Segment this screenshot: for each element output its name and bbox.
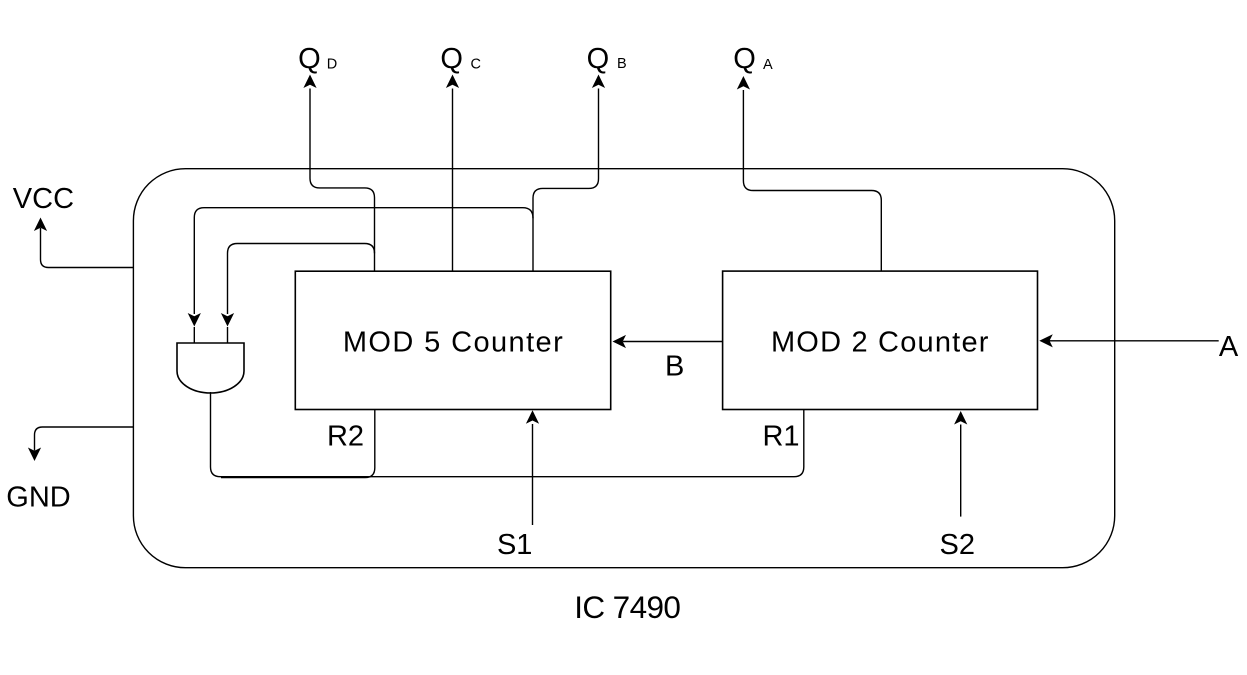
svg-text:MOD 5 Counter: MOD 5 Counter [343, 327, 564, 359]
IC 7490 body outline [133, 169, 1114, 568]
svg-text:S2: S2 [940, 529, 975, 561]
svg-text:R1: R1 [762, 421, 799, 453]
svg-text:D: D [327, 56, 337, 72]
svg-text:S1: S1 [497, 529, 532, 561]
wire GND to left edge [28, 427, 133, 461]
wire AND gate output to R1 [211, 392, 804, 477]
wire S1 input [526, 410, 539, 525]
svg-text:GND: GND [6, 482, 70, 514]
svg-text:Q: Q [733, 43, 756, 75]
Qc output label [440, 43, 481, 75]
svg-text:B: B [617, 56, 627, 72]
wire B from MOD2 to MOD5 [613, 335, 723, 348]
svg-text:C: C [471, 57, 481, 73]
svg-text:A: A [1219, 331, 1239, 363]
MOD 5 Counter block [295, 271, 610, 409]
wire VCC to left edge [34, 218, 133, 268]
wire feedback Qd to AND gate input 2 [221, 244, 375, 327]
wire R2 branch [221, 410, 375, 478]
MOD 2 Counter block [723, 271, 1038, 409]
Qa output label [733, 43, 773, 75]
AND gate [177, 327, 244, 393]
svg-text:Q: Q [440, 43, 463, 75]
svg-text:A: A [763, 57, 773, 73]
svg-text:B: B [665, 350, 684, 382]
wire S2 input [954, 411, 967, 517]
wire Qc output [446, 75, 459, 272]
Qb output label [587, 43, 627, 75]
svg-text:Q: Q [587, 43, 610, 75]
svg-text:MOD 2 Counter: MOD 2 Counter [771, 327, 990, 359]
wire Qb output [533, 75, 605, 272]
svg-text:VCC: VCC [13, 183, 74, 215]
svg-text:IC 7490: IC 7490 [574, 589, 680, 625]
wire feedback Qb to AND gate input 1 [188, 208, 533, 327]
wire Qa output [737, 76, 882, 271]
svg-text:Q: Q [298, 43, 321, 75]
Qd output label [298, 43, 337, 75]
wire Qd output [303, 75, 374, 272]
svg-text:R2: R2 [327, 421, 364, 453]
wire A input [1039, 334, 1218, 347]
